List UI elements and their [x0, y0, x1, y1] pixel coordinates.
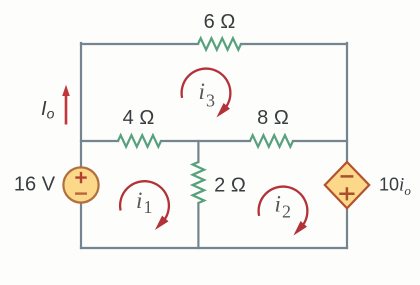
resistor 4ohm — [118, 135, 161, 147]
svg-text:16 V: 16 V — [14, 174, 56, 196]
mesh current i2 arc — [259, 187, 308, 225]
svg-text:4 Ω: 4 Ω — [123, 107, 155, 129]
wire left upper — [80, 43, 82, 167]
mesh current i1 arc — [120, 181, 169, 219]
svg-text:8 Ω: 8 Ω — [257, 107, 289, 129]
wire top-left segment — [81, 43, 198, 45]
dependent source 10io diamond — [325, 162, 369, 208]
svg-text:3: 3 — [206, 90, 215, 110]
wire middle-left — [81, 140, 118, 142]
svg-text:6 Ω: 6 Ω — [204, 11, 236, 33]
diamond minus sign — [341, 175, 354, 178]
svg-text:i: i — [275, 192, 281, 217]
Io arrow — [65, 95, 68, 125]
resistor 6ohm — [198, 38, 241, 50]
wire right lower — [346, 208, 348, 248]
voltage source 16V circle — [63, 167, 98, 202]
mesh current i3 arrowhead — [216, 103, 230, 117]
wire right upper — [346, 43, 348, 162]
resistor 2ohm — [193, 162, 205, 203]
svg-text:2: 2 — [282, 202, 291, 222]
wire middle-right — [293, 140, 347, 142]
svg-text:i: i — [199, 79, 205, 104]
16V plus sign — [75, 172, 86, 183]
wire center vertical lower stub — [197, 203, 199, 248]
wire bottom — [81, 247, 347, 249]
resistor 8ohm — [250, 135, 293, 147]
wire top-right segment — [241, 43, 347, 45]
wire left lower — [80, 203, 82, 248]
svg-text:2 Ω: 2 Ω — [214, 175, 246, 197]
diamond plus sign — [339, 187, 354, 200]
wire center vertical upper stub — [197, 141, 199, 162]
16V minus sign — [75, 192, 87, 194]
wire middle-center — [161, 140, 250, 142]
mesh current i2 arrowhead — [293, 221, 307, 235]
svg-text:i: i — [136, 188, 142, 213]
mesh current i1 arrowhead — [155, 216, 169, 230]
mesh current i3 arc — [182, 69, 231, 107]
svg-text:1: 1 — [144, 197, 153, 217]
